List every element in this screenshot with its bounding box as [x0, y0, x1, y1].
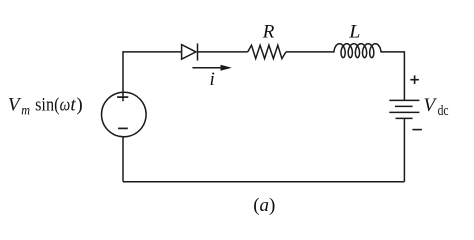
wire source bottom — [122, 137, 124, 182]
label Vdc — [424, 95, 449, 119]
inductor L — [334, 44, 381, 58]
svg-text:i: i — [210, 69, 215, 90]
svg-text:sin(: sin( — [35, 94, 59, 115]
svg-text:R: R — [262, 22, 275, 43]
svg-text:): ) — [76, 94, 82, 115]
resistor R — [248, 45, 286, 58]
minus mark inside source — [118, 127, 128, 129]
svg-text:V: V — [424, 95, 438, 116]
label Vm sin(wt) — [8, 94, 83, 117]
svg-text:ω: ω — [60, 94, 71, 115]
wire inductor to top-right corner — [381, 52, 405, 101]
svg-text:dc: dc — [438, 103, 449, 119]
minus mark at battery — [412, 129, 422, 131]
svg-text:L: L — [348, 22, 360, 43]
current arrow i — [192, 65, 231, 71]
wire battery to bottom-right corner — [403, 118, 405, 181]
wire bottom — [123, 181, 404, 183]
voltage source VS circle — [102, 92, 147, 137]
diode D1 — [182, 43, 198, 60]
wire top-left (source top to diode) — [123, 52, 182, 101]
plus mark at battery — [410, 75, 419, 84]
battery Vdc — [389, 100, 419, 118]
svg-text:V: V — [8, 94, 22, 115]
wire diode to resistor — [198, 51, 248, 53]
plus mark inside source — [117, 96, 128, 98]
wire resistor to inductor — [286, 51, 334, 53]
svg-text:m: m — [21, 103, 30, 118]
svg-text:(a): (a) — [253, 195, 275, 216]
